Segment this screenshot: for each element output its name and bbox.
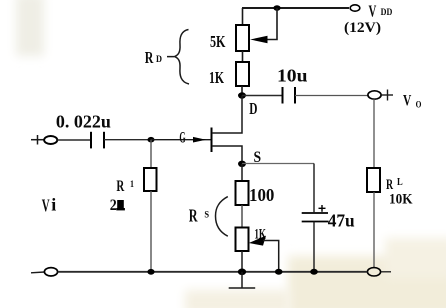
svg-text:R: R (116, 178, 124, 195)
junction on rail at R1 (147, 269, 154, 275)
wire 5K to 1K (242, 51, 244, 62)
svg-text:5K: 5K (210, 32, 226, 51)
polarity plus of 47u (319, 205, 326, 212)
node S junction (238, 161, 246, 167)
wiper wire of 5K pot (266, 8, 277, 40)
svg-text:2: 2 (110, 197, 117, 214)
resistor RL body (367, 168, 380, 192)
node D junction (238, 92, 246, 98)
source lead of Q1 (212, 146, 242, 164)
label VDD (369, 2, 393, 21)
wire S node down to 100 (241, 164, 243, 181)
resistor R1 body (144, 168, 157, 191)
svg-text:V: V (42, 195, 50, 215)
junction on rail at 1K (238, 269, 246, 276)
svg-text:D: D (249, 99, 257, 118)
wire R1 top (150, 140, 152, 168)
svg-text:G: G (179, 130, 185, 147)
wiper arrow of 1K pot (249, 236, 266, 246)
wire 100 to 1K pot (241, 205, 243, 228)
brace for RD (167, 30, 189, 85)
svg-text:S: S (204, 209, 209, 219)
gate arrow of JFET Q1 (193, 137, 206, 143)
wire R1 to bottom rail (150, 191, 152, 272)
svg-text:i: i (51, 195, 56, 215)
wire 47u top (313, 164, 315, 214)
label RS (189, 205, 209, 225)
node junction on top rail (273, 5, 280, 11)
label Vo (403, 93, 421, 111)
svg-text:1K: 1K (209, 68, 224, 87)
wire 47u bottom (313, 222, 315, 272)
wire Vo to RL (373, 99, 375, 168)
capacitor 47u positive plate (302, 212, 328, 214)
junction on rail at wiper (275, 269, 283, 275)
svg-text:V: V (369, 2, 377, 21)
terminal bottom-right (367, 268, 380, 276)
wiper wire of 1K pot (263, 241, 279, 272)
terminal VDD (350, 5, 360, 11)
wire top rail VDD (242, 7, 349, 9)
wire RL to bottom terminal (373, 192, 375, 268)
transistor Q1 JFET channel bar (211, 128, 213, 153)
svg-text:R: R (386, 177, 393, 193)
terminal input Vi (44, 136, 57, 144)
svg-text:DD: DD (381, 8, 393, 18)
node gate junction (148, 137, 155, 143)
capacitor 10u (283, 87, 296, 104)
tick right of bottom-right terminal (381, 271, 391, 273)
terminal bottom-left (44, 268, 57, 276)
svg-text:1: 1 (130, 179, 134, 189)
wire bottom rail (58, 271, 368, 273)
svg-text:0. 022u: 0. 022u (56, 112, 111, 132)
capacitor C1 0.022u (91, 132, 104, 149)
resistor 1K (drain) body (236, 62, 249, 86)
label RL (386, 177, 403, 193)
svg-text:(12V): (12V) (344, 20, 381, 36)
ground (229, 272, 256, 288)
drain lead of Q1 (212, 96, 242, 134)
stub left of bottom-left terminal (31, 271, 45, 274)
wire C1 to gate node (104, 139, 151, 141)
capacitor 47u negative plate (302, 221, 329, 223)
svg-text:10u: 10u (277, 66, 308, 86)
label RD (145, 48, 163, 67)
svg-text:R: R (189, 205, 198, 225)
svg-text:10K: 10K (389, 192, 413, 208)
wiper arrow of 5K pot (250, 36, 268, 43)
terminal Vo (368, 91, 381, 99)
wire S to 47u (242, 163, 314, 165)
svg-text:O: O (416, 101, 422, 111)
tick at input terminal (31, 135, 44, 145)
label 2M (110, 197, 125, 214)
wire input to C1 (58, 139, 92, 141)
svg-text:D: D (156, 54, 162, 64)
junction on rail at 47u (310, 269, 318, 275)
wire top rail to 5K (242, 8, 244, 25)
scan artifact shading top-left (16, 0, 44, 56)
svg-text:V: V (403, 93, 412, 110)
scan artifact shading bottom-right (288, 256, 446, 308)
potentiometer 5K body (236, 25, 249, 51)
resistor 100 body (236, 181, 249, 205)
potentiometer 1K (source) body (236, 228, 249, 252)
brace for RS (216, 197, 228, 237)
wire gate node to JFET gate (151, 139, 211, 141)
label R1 (116, 178, 134, 195)
svg-text:R: R (145, 48, 154, 67)
wire node D to 10u (242, 95, 282, 97)
svg-text:100: 100 (249, 185, 274, 205)
tick at Vo terminal (382, 90, 394, 101)
wire 10u to Vo (295, 95, 368, 97)
label Vi (42, 195, 57, 216)
wire 1K pot to bottom rail (241, 251, 243, 272)
svg-text:47u: 47u (328, 210, 355, 230)
svg-text:L: L (397, 177, 403, 188)
wire 1K to node D (241, 86, 243, 96)
